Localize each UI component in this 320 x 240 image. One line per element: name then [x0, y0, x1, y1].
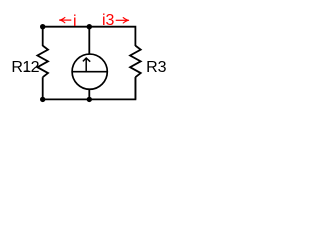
svg-text:i: i: [73, 13, 77, 30]
current arrow pointing left (red): [60, 19, 72, 21]
wire: R12 top lead: [42, 27, 44, 46]
wire: top node, left segment: [43, 26, 90, 28]
resistor R12: [37, 46, 48, 78]
svg-text:R3: R3: [146, 59, 167, 76]
svg-text:R12: R12: [11, 59, 39, 76]
wire: R3 bottom lead: [134, 77, 136, 99]
junction dot: top-middle node: [87, 24, 92, 29]
current source (circle with bar and up arrow): [72, 54, 107, 89]
resistor R3: [130, 46, 141, 78]
junction dot: bottom-left node: [40, 97, 45, 102]
svg-text:i3: i3: [102, 12, 115, 29]
current arrow pointing right (red): [116, 19, 129, 21]
label R12: foot serif of digit 1: [25, 71, 29, 73]
wire: R12 bottom lead: [42, 77, 44, 99]
junction dot: bottom-middle node: [87, 97, 92, 102]
junction dot: top-left node: [40, 24, 45, 29]
wire: current source bottom lead: [88, 89, 90, 99]
wire: top node, right segment with corner down to R3: [89, 27, 135, 46]
wire: bottom node, right segment with corner up to R3: [89, 77, 135, 99]
wire: bottom node, left segment: [43, 98, 90, 100]
wire: current source top lead: [88, 27, 90, 55]
